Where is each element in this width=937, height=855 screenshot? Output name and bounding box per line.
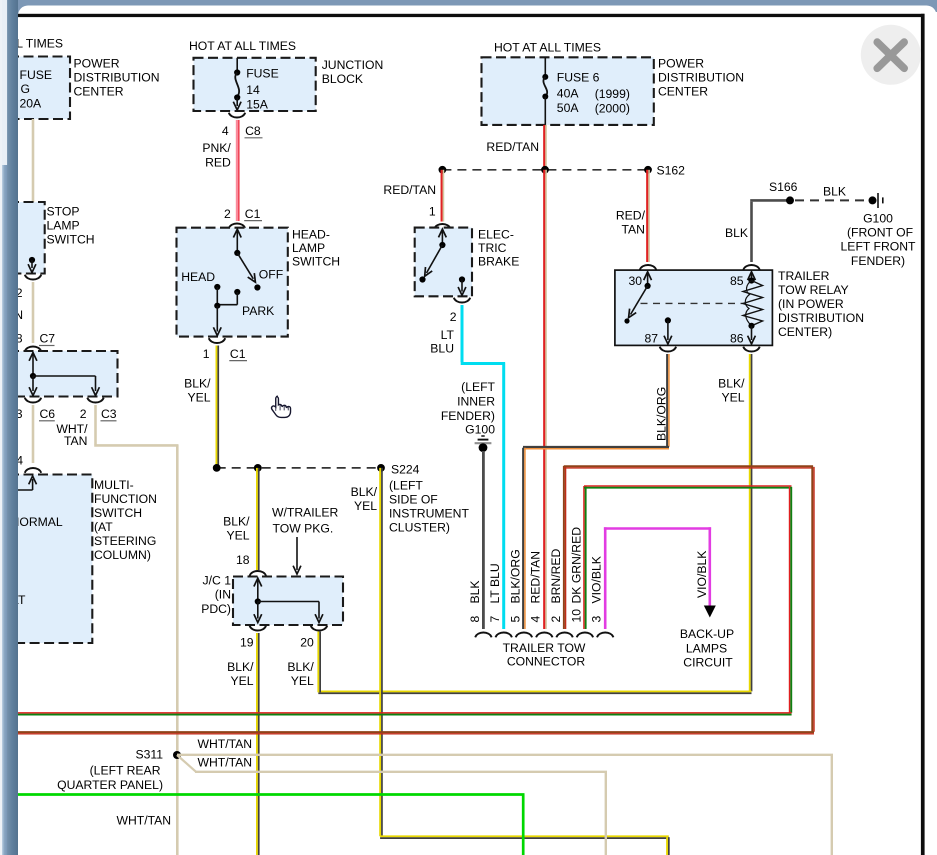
splice S162 dashed bus bbox=[442, 169, 648, 171]
wire BLK/YEL S224 to J/C 1 pin 18 bbox=[257, 468, 259, 570]
relay pin 85 and coil bbox=[730, 272, 763, 329]
close button bbox=[861, 25, 921, 85]
headlamp switch contacts bbox=[181, 229, 283, 335]
wire RED/TAN fuse 6 to splice S162 bbox=[544, 125, 546, 170]
connector pin 2 below electric brake bbox=[450, 298, 470, 324]
svg-text:5: 5 bbox=[508, 616, 522, 623]
electric brake box bbox=[415, 228, 472, 297]
connector pin 4 multi-function switch bbox=[16, 454, 41, 473]
label BLK/YEL (pin 19) bbox=[227, 660, 254, 688]
svg-text:1: 1 bbox=[203, 347, 210, 361]
label WHT/TAN (C3 wire) bbox=[56, 422, 88, 448]
svg-text:S224: S224 bbox=[391, 462, 420, 476]
trailer tow connector pin 5 BLK/ORG bbox=[508, 549, 532, 637]
connector 2 C3 bbox=[80, 398, 117, 421]
wire RED/TAN S162 to trailer tow connector pin 4 bbox=[544, 170, 546, 629]
svg-text:POWER: POWER bbox=[74, 57, 120, 71]
svg-text:40A: 40A bbox=[557, 87, 580, 101]
connector 8 C7 bbox=[16, 332, 56, 352]
left window rail bbox=[7, 0, 18, 855]
svg-text:(LEFT: (LEFT bbox=[389, 478, 423, 492]
wire BLK/ORG relay 87 to trailer tow connector pin 5 bbox=[523, 354, 669, 629]
label POWER DISTRIBUTION CENTER (PDC) bbox=[658, 57, 744, 99]
fuse G 20A box (Power Distribution Center) bbox=[0, 57, 70, 120]
left scrollbar thumb bbox=[2, 165, 7, 855]
svg-text:4: 4 bbox=[222, 124, 229, 138]
svg-text:SWITCH: SWITCH bbox=[292, 255, 340, 269]
connector 2 C1 bbox=[224, 207, 262, 229]
node S224 middle dot bbox=[254, 464, 262, 472]
wire BLK/YEL relay 86 to J/C 1 pin 20 bbox=[318, 354, 751, 693]
mouse cursor (hand pointer) bbox=[272, 396, 291, 417]
back-up lamps circuit arrow bbox=[704, 606, 716, 618]
wire WHT/TAN S311 branch 1 bbox=[177, 755, 833, 855]
connector pin 2 below stop lamp switch bbox=[14, 275, 41, 322]
svg-text:BRN/RED: BRN/RED bbox=[549, 548, 563, 603]
svg-text:LT BLU: LT BLU bbox=[488, 563, 502, 603]
svg-text:VIO/BLK: VIO/BLK bbox=[695, 551, 709, 598]
label TRAILER TOW RELAY (IN POWER DISTRIBUTION CENTER) bbox=[778, 269, 864, 339]
svg-text:FUSE: FUSE bbox=[246, 67, 279, 81]
svg-text:STOP: STOP bbox=[47, 205, 80, 219]
trailer tow relay box U1 bbox=[615, 270, 773, 345]
svg-text:(IN POWER: (IN POWER bbox=[778, 297, 844, 311]
label (LEFT INNER FENDER) G100 bbox=[441, 380, 496, 437]
svg-text:RED/TAN: RED/TAN bbox=[529, 551, 543, 604]
ground G100 front of left front fender bbox=[869, 193, 883, 208]
wire PNK/RED fuse 14 to headlamp switch bbox=[237, 120, 239, 221]
svg-text:NORMAL: NORMAL bbox=[11, 515, 63, 529]
label BLK/YEL (headlamp wire) bbox=[184, 376, 211, 404]
svg-text:86: 86 bbox=[730, 331, 744, 345]
svg-text:10: 10 bbox=[569, 609, 583, 623]
svg-text:FUNCTION: FUNCTION bbox=[94, 492, 157, 506]
svg-text:20: 20 bbox=[300, 636, 314, 650]
svg-text:BLK/ORG: BLK/ORG bbox=[655, 387, 669, 441]
node S311 bbox=[135, 747, 181, 761]
svg-text:18: 18 bbox=[236, 553, 250, 567]
svg-text:QUARTER PANEL): QUARTER PANEL) bbox=[57, 778, 163, 792]
svg-text:HEAD: HEAD bbox=[181, 270, 215, 284]
svg-text:C8: C8 bbox=[245, 124, 261, 138]
svg-text:OFF: OFF bbox=[259, 267, 283, 281]
wire LT BLU electric brake to trailer tow connector pin 7 bbox=[461, 305, 505, 629]
wire BLK/YEL pin 19 down bbox=[257, 633, 259, 855]
svg-text:LAMP: LAMP bbox=[292, 241, 325, 255]
label ELEC-TRIC BRAKE bbox=[478, 227, 519, 268]
svg-text:(2000): (2000) bbox=[595, 101, 630, 115]
svg-text:1: 1 bbox=[429, 204, 436, 218]
label BACK-UP LAMPS CIRCUIT bbox=[680, 627, 734, 669]
svg-text:COLUMN): COLUMN) bbox=[94, 548, 151, 562]
wire DK GRN/RED pin 10 loop to bottom bus bbox=[10, 486, 792, 715]
svg-text:85: 85 bbox=[730, 274, 744, 288]
svg-text:RED/TAN: RED/TAN bbox=[383, 183, 436, 197]
wire BLK/YEL headlamp switch to S224 bbox=[216, 346, 218, 468]
svg-text:SWITCH: SWITCH bbox=[94, 506, 142, 520]
svg-text:BLK/: BLK/ bbox=[287, 660, 314, 674]
J/C 1 box (in PDC) bbox=[233, 577, 343, 626]
wire BLK relay 85 up to S166 bbox=[750, 200, 787, 262]
label LT (clipped) bbox=[12, 593, 26, 607]
svg-text:POWER: POWER bbox=[658, 57, 704, 71]
wire BRN/RED pin 2 loop to bottom bus bbox=[10, 466, 814, 734]
node S162 middle dot bbox=[541, 166, 549, 174]
wire RED/TAN S162 to relay pin 30 bbox=[647, 170, 649, 262]
svg-text:(LEFT REAR: (LEFT REAR bbox=[90, 763, 161, 777]
relay pin 86 lead bbox=[730, 326, 755, 346]
relay internal dashed link bbox=[641, 302, 746, 304]
label HOT AT ALL TIMES (PDC) bbox=[494, 41, 601, 55]
node S224 left dot bbox=[213, 464, 221, 472]
wire VIO/BLK pin 3 to back-up lamps circuit bbox=[604, 527, 711, 629]
svg-text:S311: S311 bbox=[135, 747, 163, 761]
svg-text:C1: C1 bbox=[230, 347, 246, 361]
svg-text:TRIC: TRIC bbox=[478, 241, 507, 255]
svg-text:TAN: TAN bbox=[622, 223, 645, 237]
label HEAD-LAMP SWITCH bbox=[292, 228, 340, 269]
stop lamp switch contact bbox=[28, 257, 36, 273]
headlamp switch box bbox=[177, 228, 288, 337]
svg-text:YEL: YEL bbox=[291, 674, 314, 688]
svg-text:VIO/BLK: VIO/BLK bbox=[590, 556, 604, 603]
svg-text:TOW RELAY: TOW RELAY bbox=[778, 283, 849, 297]
node S162 left dot bbox=[439, 166, 447, 174]
trailer tow connector pin 2 BRN/RED bbox=[549, 548, 573, 637]
connector above relay pin 30 bbox=[640, 265, 656, 270]
svg-text:4: 4 bbox=[529, 616, 543, 623]
label WHT/TAN (vertical wire) bbox=[117, 813, 172, 827]
svg-text:PARK: PARK bbox=[242, 304, 274, 318]
svg-text:LAMP: LAMP bbox=[47, 219, 80, 233]
svg-text:G100: G100 bbox=[863, 211, 893, 225]
svg-text:LEFT FRONT: LEFT FRONT bbox=[841, 240, 916, 254]
multi-function switch internal wire bbox=[10, 476, 37, 490]
svg-text:C6: C6 bbox=[40, 407, 56, 421]
svg-text:FENDER): FENDER) bbox=[441, 409, 495, 423]
wire BLK ground to trailer tow connector pin 8 bbox=[482, 451, 485, 629]
svg-text:FUSE 6: FUSE 6 bbox=[557, 70, 600, 84]
svg-text:BLK: BLK bbox=[823, 185, 846, 199]
svg-text:C7: C7 bbox=[40, 332, 56, 346]
wire RED/TAN S162 to electric brake bbox=[442, 170, 444, 222]
svg-text:C3: C3 bbox=[101, 407, 117, 421]
svg-text:BACK-UP: BACK-UP bbox=[680, 627, 734, 641]
svg-text:DISTRIBUTION: DISTRIBUTION bbox=[778, 311, 864, 325]
svg-text:19: 19 bbox=[240, 636, 254, 650]
node S162 right dot bbox=[644, 163, 685, 177]
label BLK/ORG (relay 87 wire) bbox=[655, 387, 669, 441]
fuse 6 40A/50A bbox=[542, 57, 630, 125]
label HOT AT ALL TIMES (left, clipped) bbox=[0, 37, 63, 51]
connector pin 19 J/C 1 bbox=[240, 626, 266, 650]
svg-text:STEERING: STEERING bbox=[94, 534, 156, 548]
fuse 14 15A bbox=[233, 58, 278, 112]
svg-text:FENDER): FENDER) bbox=[851, 254, 905, 268]
svg-text:HEAD-: HEAD- bbox=[292, 228, 330, 242]
connector above relay pin 85 bbox=[743, 265, 759, 270]
svg-text:RED/TAN: RED/TAN bbox=[486, 140, 539, 154]
svg-text:MULTI-: MULTI- bbox=[94, 478, 134, 492]
relay pin 30 switch arm bbox=[624, 272, 651, 324]
svg-text:ELEC-: ELEC- bbox=[478, 227, 514, 241]
label WHT/TAN (branch 2) bbox=[198, 756, 253, 770]
node S166 bbox=[769, 180, 798, 205]
connector 1 C1 below headlamp switch bbox=[203, 338, 247, 361]
svg-text:TOW PKG.: TOW PKG. bbox=[273, 521, 334, 535]
svg-text:W/TRAILER: W/TRAILER bbox=[272, 505, 339, 519]
trailer tow connector pin 8 BLK bbox=[468, 580, 492, 637]
multi-function switch box bbox=[0, 475, 92, 644]
svg-text:(FRONT OF: (FRONT OF bbox=[847, 226, 913, 240]
svg-text:DISTRIBUTION: DISTRIBUTION bbox=[658, 71, 744, 85]
svg-text:BLU: BLU bbox=[430, 342, 454, 356]
svg-text:DK GRN/RED: DK GRN/RED bbox=[569, 527, 583, 604]
svg-text:G: G bbox=[21, 82, 30, 96]
wire BLK/YEL S224 down to bottom bus bbox=[380, 468, 669, 855]
page frame right rule bbox=[921, 14, 925, 855]
trailer tow connector pin 3 VIO/BLK bbox=[590, 556, 614, 637]
svg-text:BLK: BLK bbox=[468, 580, 482, 603]
connector below relay pin 87 bbox=[660, 347, 676, 352]
svg-text:14: 14 bbox=[246, 83, 260, 97]
svg-text:(AT: (AT bbox=[94, 520, 113, 534]
svg-text:(1999): (1999) bbox=[595, 87, 630, 101]
svg-text:TRAILER TOW: TRAILER TOW bbox=[503, 641, 586, 655]
svg-text:TAN: TAN bbox=[64, 434, 87, 448]
svg-text:WHT/TAN: WHT/TAN bbox=[117, 813, 172, 827]
trailer tow connector pin 7 LT BLU bbox=[488, 563, 512, 637]
svg-text:20A: 20A bbox=[20, 97, 43, 111]
label (LEFT SIDE OF INSTRUMENT CLUSTER) bbox=[389, 478, 469, 534]
svg-text:CENTER): CENTER) bbox=[778, 325, 832, 339]
svg-text:HOT AT ALL TIMES: HOT AT ALL TIMES bbox=[494, 41, 601, 55]
svg-text:YEL: YEL bbox=[721, 391, 744, 405]
ground G100 left inner fender bbox=[475, 436, 492, 452]
svg-text:LAMPS: LAMPS bbox=[686, 641, 727, 655]
svg-text:LT: LT bbox=[441, 328, 455, 342]
svg-text:30: 30 bbox=[628, 274, 642, 288]
label JUNCTION BLOCK bbox=[322, 58, 384, 86]
label RED/TAN (electric brake) bbox=[383, 183, 436, 197]
svg-text:87: 87 bbox=[644, 331, 658, 345]
svg-text:BLK/: BLK/ bbox=[227, 660, 254, 674]
svg-text:S166: S166 bbox=[769, 180, 798, 194]
wire WHT/TAN column down to S311 bbox=[176, 445, 179, 855]
svg-text:7: 7 bbox=[488, 616, 502, 623]
svg-text:TRAILER: TRAILER bbox=[778, 269, 830, 283]
wire WHT/TAN C6 to multi-function switch pin 4 bbox=[32, 405, 35, 463]
label STOP LAMP SWITCH bbox=[47, 205, 95, 247]
svg-text:CENTER: CENTER bbox=[658, 85, 708, 99]
label BLK (relay) bbox=[725, 226, 748, 240]
splice S224 dashed bus bbox=[217, 467, 381, 469]
relay pin 87 contact bbox=[644, 317, 671, 345]
label W/TRAILER TOW PKG. with arrow bbox=[272, 505, 339, 574]
svg-text:SWITCH: SWITCH bbox=[47, 233, 95, 247]
node S224 right dot bbox=[377, 462, 420, 476]
label POWER DISTRIBUTION CENTER (left) bbox=[74, 57, 160, 99]
label BLK/YEL (S224 right wire) bbox=[351, 485, 378, 513]
label NORMAL (clipped) bbox=[11, 515, 63, 529]
svg-text:PDC): PDC) bbox=[201, 602, 231, 616]
connector 3 C6 bbox=[16, 398, 56, 421]
svg-text:BLK/: BLK/ bbox=[184, 376, 211, 390]
trailer tow connector pin 4 RED/TAN bbox=[529, 551, 553, 637]
label LT BLU bbox=[430, 328, 454, 356]
label G100 (FRONT OF LEFT FRONT FENDER) bbox=[841, 211, 916, 268]
label BLK/YEL (pin 18 wire) bbox=[223, 514, 250, 542]
svg-text:J/C 1: J/C 1 bbox=[203, 573, 232, 587]
svg-text:2: 2 bbox=[224, 207, 231, 221]
svg-text:CIRCUIT: CIRCUIT bbox=[683, 656, 733, 670]
label RED/TAN (fuse 6) bbox=[486, 140, 539, 154]
wire GRN bottom bus bbox=[10, 795, 525, 855]
svg-text:RED/: RED/ bbox=[616, 208, 646, 222]
svg-text:WHT/TAN: WHT/TAN bbox=[198, 756, 253, 770]
svg-text:DISTRIBUTION: DISTRIBUTION bbox=[74, 71, 160, 85]
wire WHT/TAN S311 branch 2 bbox=[177, 755, 607, 855]
svg-text:YEL: YEL bbox=[230, 674, 253, 688]
wire WHT/TAN stop lamp switch to C7 bbox=[32, 282, 35, 343]
connector below relay pin 86 bbox=[743, 347, 759, 352]
label WHT/TAN (branch 1) bbox=[198, 737, 253, 751]
svg-text:INSTRUMENT: INSTRUMENT bbox=[389, 506, 469, 520]
svg-text:50A: 50A bbox=[557, 101, 580, 115]
label MULTI-FUNCTION SWITCH (AT STEERING COLUMN) bbox=[94, 478, 157, 562]
svg-text:FUSE: FUSE bbox=[20, 68, 53, 82]
connector pin 1 electric brake bbox=[429, 204, 451, 228]
svg-text:BLK/: BLK/ bbox=[223, 514, 250, 528]
svg-text:C1: C1 bbox=[245, 207, 261, 221]
wire inside connector box bbox=[29, 353, 99, 396]
label VIO/BLK (back-up branch) bbox=[695, 551, 709, 598]
svg-text:WHT/TAN: WHT/TAN bbox=[198, 737, 253, 751]
fuse 6 box (Power Distribution Center) bbox=[482, 57, 654, 125]
svg-text:YEL: YEL bbox=[354, 499, 377, 513]
svg-text:JUNCTION: JUNCTION bbox=[322, 58, 384, 72]
label TRAILER TOW CONNECTOR bbox=[503, 641, 586, 669]
svg-text:(IN: (IN bbox=[215, 588, 231, 602]
svg-text:BLK/: BLK/ bbox=[351, 485, 378, 499]
svg-text:BRAKE: BRAKE bbox=[478, 254, 519, 268]
page frame top rule bbox=[18, 14, 925, 17]
svg-text:YEL: YEL bbox=[187, 391, 210, 405]
svg-text:CLUSTER): CLUSTER) bbox=[389, 520, 450, 534]
svg-text:CENTER: CENTER bbox=[74, 85, 124, 99]
svg-text:S162: S162 bbox=[657, 163, 686, 177]
label BLK/YEL (pin 20) bbox=[287, 660, 314, 688]
label RED/TAN (relay 30) bbox=[616, 208, 646, 236]
svg-text:2: 2 bbox=[450, 310, 457, 324]
trailer tow connector pin 10 DK GRN/RED bbox=[569, 527, 593, 638]
electric brake contacts bbox=[419, 229, 466, 295]
svg-text:BLK/: BLK/ bbox=[718, 376, 745, 390]
svg-text:2: 2 bbox=[80, 407, 87, 421]
wire WHT/TAN C3 down and right to S311 column bbox=[94, 405, 178, 445]
svg-text:BLK: BLK bbox=[725, 226, 748, 240]
svg-text:HOT AT ALL TIMES: HOT AT ALL TIMES bbox=[189, 39, 296, 53]
svg-text:YEL: YEL bbox=[226, 528, 249, 542]
wire WHT/TAN fuse G to stop lamp switch bbox=[32, 119, 35, 202]
svg-text:2: 2 bbox=[549, 616, 563, 623]
svg-text:INNER: INNER bbox=[457, 394, 495, 408]
svg-text:(LEFT: (LEFT bbox=[461, 380, 495, 394]
label S311 (LEFT REAR QUARTER PANEL) bbox=[57, 763, 163, 792]
label HOT AT ALL TIMES (junction block) bbox=[189, 39, 296, 53]
svg-text:8: 8 bbox=[468, 616, 482, 623]
svg-text:CONNECTOR: CONNECTOR bbox=[507, 655, 586, 669]
svg-text:BLK/ORG: BLK/ORG bbox=[508, 549, 522, 603]
svg-text:RED: RED bbox=[205, 156, 231, 170]
svg-text:15A: 15A bbox=[246, 97, 269, 111]
svg-text:BLOCK: BLOCK bbox=[322, 72, 363, 86]
label PNK/RED bbox=[202, 141, 231, 170]
connector pin 20 J/C 1 bbox=[300, 626, 327, 650]
svg-text:SIDE OF: SIDE OF bbox=[389, 492, 438, 506]
connector pin 18 J/C 1 bbox=[236, 553, 266, 576]
svg-text:3: 3 bbox=[590, 616, 604, 623]
svg-text:G100: G100 bbox=[465, 423, 495, 437]
connector box C7/C6/C3 (instrument harness) bbox=[0, 351, 118, 397]
label J/C 1 (IN PDC) bbox=[201, 573, 231, 616]
label BLK/YEL (relay 86 wire) bbox=[718, 376, 745, 404]
connector 4 C8 bbox=[222, 113, 263, 138]
left scrollbar track bbox=[0, 0, 2, 855]
J/C 1 internal bus bbox=[254, 578, 323, 622]
junction block box bbox=[194, 58, 316, 111]
dashed BLK lead to ground G100 (front fender) bbox=[795, 185, 864, 201]
svg-text:PNK/: PNK/ bbox=[202, 141, 231, 155]
stop lamp switch box bbox=[0, 202, 45, 274]
